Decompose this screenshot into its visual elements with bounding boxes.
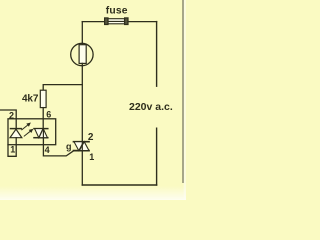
photo-triac inside optocoupler (34, 129, 48, 138)
scan border right edge (183, 0, 186, 200)
wire pin 1 lead and tab below package (8, 138, 16, 157)
wire bottom rail (82, 184, 156, 186)
light arrows from LED to photo-triac (22, 123, 33, 136)
svg-text:1: 1 (10, 145, 15, 155)
scan fade bottom edge (0, 186, 186, 200)
svg-text:220v a.c.: 220v a.c. (129, 101, 173, 113)
optocoupler U1 package outline (8, 119, 56, 145)
wire right rail lower segment (156, 128, 158, 185)
fuse F1 (105, 18, 129, 25)
svg-text:4: 4 (45, 145, 50, 155)
svg-text:2: 2 (88, 132, 94, 143)
svg-text:6: 6 (46, 109, 51, 119)
wire branch to resistor (junction on main line) (43, 85, 82, 91)
wire top-right segment (fuse to right rail) (128, 21, 157, 23)
resistor R1 (40, 90, 46, 107)
wire resistor to optocoupler pin 6 (42, 108, 44, 129)
lamp LP1 (71, 43, 93, 65)
wire main vertical lamp to triac (81, 63, 83, 141)
wire pin 4 lead to triac gate (43, 138, 73, 156)
svg-text:g: g (66, 142, 72, 152)
svg-text:4k7: 4k7 (22, 93, 39, 104)
triac Q1 (74, 142, 90, 151)
LED D1 inside optocoupler (10, 129, 22, 138)
wire top-left segment (lamp line to fuse) (82, 21, 105, 23)
svg-text:2: 2 (9, 111, 14, 121)
wire pin 2 lead (exits image left) (0, 110, 16, 129)
wire triac to bottom rail (81, 151, 83, 185)
wire lamp top lead (81, 22, 83, 45)
svg-text:1: 1 (89, 152, 94, 162)
svg-text:fuse: fuse (106, 6, 128, 17)
wire right rail upper segment (156, 22, 158, 87)
